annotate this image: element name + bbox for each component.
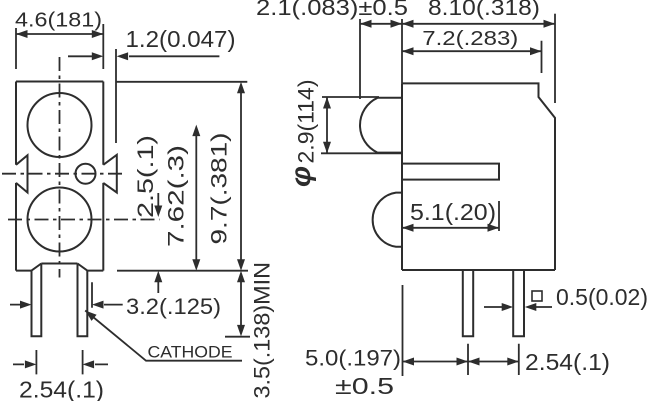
dimension 7.62(.3) line [195, 135, 197, 260]
3.2 arrows [20, 301, 32, 309]
dimension 4.6(181) extension lines [16, 24, 103, 69]
svg-text:φ: φ [285, 166, 316, 187]
seating plane extension line [117, 270, 248, 272]
2.54 right arrows [468, 358, 480, 366]
LED circle top [28, 93, 92, 157]
lead right (side view) [513, 271, 524, 337]
lead left (side view) [463, 271, 473, 337]
1.2 dim arrows [92, 52, 104, 60]
bottom dimension line 5.0 / 2.54 [403, 361, 519, 363]
dimension 9.7(.381) line [240, 92, 242, 260]
phi 2.9 dimension line [326, 97, 328, 153]
dimension 4.6(181) line [16, 33, 103, 35]
svg-text:3.5(.138)MIN: 3.5(.138)MIN [250, 262, 275, 399]
svg-text:5.1(.20): 5.1(.20) [410, 199, 496, 225]
3.5 MIN arrows [237, 271, 245, 283]
svg-text:2.54(.1): 2.54(.1) [525, 349, 610, 375]
dimension 3.2(.125) lines [10, 282, 123, 307]
svg-text:2.5(.1): 2.5(.1) [133, 135, 158, 218]
8.10 dim arrows [402, 20, 414, 28]
body top extension line [116, 81, 247, 83]
5.0 dim arrows [403, 358, 415, 366]
lead thickness 0.5 arrows [484, 306, 552, 308]
svg-text:7.62(.3): 7.62(.3) [164, 145, 189, 247]
right polarity notch [103, 155, 117, 193]
dimension 2.5(.1) arrows [157, 193, 159, 293]
housing body side outline [402, 83, 555, 270]
bottom dimension extension lines [403, 285, 519, 376]
svg-text:±0.5: ±0.5 [335, 373, 394, 399]
2.54 left arrows [25, 360, 37, 368]
phi 2.9 arrows [323, 97, 331, 109]
svg-text:1.2(0.047): 1.2(0.047) [126, 26, 236, 52]
arrowheads [16, 20, 555, 369]
9.7 dim arrows [237, 82, 245, 94]
left polarity notch [16, 155, 28, 192]
2.1 dim arrows [360, 20, 372, 28]
dimension 2.1 extension line [359, 19, 361, 99]
dimension 3.5 MIN line [225, 281, 250, 337]
dimension 5.1 line [402, 201, 499, 231]
8.10 right extension line [554, 14, 556, 103]
LED circle bottom [28, 188, 92, 252]
LED dome top [360, 98, 402, 153]
0.5 lead arrows [502, 303, 514, 311]
svg-text:9.7(.381): 9.7(.381) [207, 133, 232, 245]
lead right (front view) cathode [78, 264, 88, 337]
svg-text:3.2(.125): 3.2(.125) [126, 294, 221, 319]
svg-text:2.9(114): 2.9(114) [294, 80, 319, 164]
svg-text:5.0(.197): 5.0(.197) [305, 346, 401, 371]
small center hole [76, 164, 96, 184]
7.62 dim arrows [192, 125, 200, 137]
dimension 1.2(0.047) lines [68, 49, 219, 143]
vertical centerline [59, 57, 61, 278]
top dimension line 2.1 / 8.10 [360, 23, 555, 25]
LED dome bottom [373, 193, 402, 247]
dimension 2.54(.1) left view [13, 350, 108, 374]
svg-text:7.2(.283): 7.2(.283) [422, 27, 518, 50]
svg-text:4.6(181): 4.6(181) [15, 9, 102, 32]
svg-text:0.5(0.02): 0.5(0.02) [556, 284, 648, 310]
7.2 dim arrows [402, 47, 414, 55]
4.6 dim arrows [16, 30, 28, 38]
cathode leader line [85, 311, 242, 361]
housing body outline [16, 82, 103, 271]
2.5 dim arrows [154, 206, 162, 218]
middle horizontal centerline [2, 173, 126, 175]
slot tab [402, 164, 499, 180]
5.1 arrows [402, 224, 414, 232]
square lead symbol [532, 291, 542, 301]
svg-text:8.10(.318): 8.10(.318) [428, 0, 540, 20]
svg-text:CATHODE: CATHODE [148, 343, 233, 362]
body left edge extension [401, 19, 403, 83]
svg-text:2.1(.083)±0.5: 2.1(.083)±0.5 [256, 0, 408, 20]
phi 2.9 extension lines [321, 97, 402, 153]
cathode leader arrowhead [85, 311, 96, 321]
lead left (front view) [32, 264, 42, 337]
dimension 7.2 line [402, 41, 542, 73]
svg-text:2.54(.1): 2.54(.1) [19, 377, 104, 401]
bottom circle horizontal centerline [8, 219, 160, 221]
